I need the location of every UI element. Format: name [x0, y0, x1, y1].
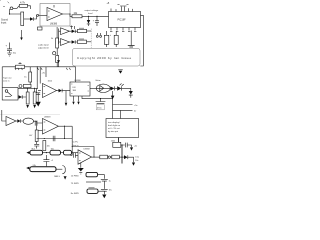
- ground G1: [128, 46, 135, 47]
- node C junction: [96, 16, 97, 17]
- wire R23 to cap column: [98, 175, 105, 179]
- buffer input bus: [59, 29, 61, 45]
- wire D1 to U1 input: [34, 15, 37, 19]
- wire R22 right: [56, 168, 62, 170]
- resistor R21: [64, 150, 72, 155]
- svg-text:8ohm: 8ohm: [96, 80, 101, 82]
- op-amp U4: [43, 119, 59, 135]
- svg-text:LM: LM: [73, 87, 76, 89]
- wire U4 out to U5 chain: [71, 126, 73, 146]
- label R8: [79, 27, 84, 29]
- svg-text:Copyright 2000 by Ian Gwee: Copyright 2000 by Ian Gwee: [77, 56, 132, 60]
- diode D5: [19, 95, 23, 99]
- svg-text:LM386: LM386: [75, 80, 82, 82]
- svg-text:16v: 16v: [109, 190, 112, 192]
- wire R8 to bus: [87, 30, 92, 32]
- copyright box: [73, 49, 141, 67]
- pin stub U2 top pin 14: [111, 9, 116, 12]
- microphone MIC1: [4, 2, 13, 10]
- wire U2 right side down: [140, 15, 143, 66]
- jack J1 box: [2, 88, 18, 101]
- resistor R17 (vertical): [35, 130, 38, 142]
- wires into control box: [113, 91, 121, 119]
- crystal X1: [120, 6, 127, 12]
- ground symbol above rail: [57, 60, 60, 63]
- speaker SP1: [96, 84, 110, 92]
- terminal T1: [108, 156, 110, 158]
- svg-text:adjustment: adjustment: [38, 46, 49, 49]
- resistor R3: [72, 15, 82, 18]
- diode D11: [17, 119, 20, 122]
- svg-text:Tape out: Tape out: [3, 76, 12, 79]
- LED D8: [117, 86, 121, 90]
- LED arrows: [120, 84, 124, 86]
- divider line: [0, 114, 60, 116]
- svg-text:audio input: audio input: [38, 44, 49, 47]
- amplifier U3 box: [70, 82, 90, 96]
- wire stub bottom-left amp: [2, 110, 6, 121]
- resistor R14 (vertical): [33, 92, 36, 104]
- capacitor C3 (polarized): [95, 16, 99, 26]
- IC U2 (PIC): [109, 12, 141, 28]
- svg-text:level: level: [88, 13, 93, 15]
- main low wire: [37, 138, 73, 140]
- control text box: [106, 119, 139, 138]
- resistor R7 (vertical): [56, 56, 59, 63]
- dashed bus x91: [90, 29, 92, 49]
- op-amp U6: [6, 117, 16, 126]
- svg-text:LM386: LM386: [50, 24, 58, 26]
- svg-text:back light on: back light on: [108, 124, 121, 127]
- svg-text:4.7k: 4.7k: [20, 0, 26, 4]
- power rail: [2, 66, 75, 68]
- svg-text:16v: 16v: [135, 160, 138, 162]
- wire U4 output: [59, 125, 73, 127]
- capacitor C9: [53, 136, 55, 141]
- svg-text:to PC: to PC: [73, 141, 79, 144]
- capacitor C14 electrolytic: [96, 99, 106, 104]
- input terminal of U1: [37, 14, 39, 16]
- capacitor C8: [35, 121, 42, 126]
- arrow left A4: [26, 167, 29, 170]
- jack J1 symbol: [5, 90, 8, 93]
- node A junction: [9, 13, 10, 14]
- wire R9 to bus: [87, 41, 92, 43]
- wire row B: [86, 181, 101, 183]
- svg-text:PIC16F: PIC16F: [118, 19, 127, 22]
- diode D9 (down): [129, 91, 133, 95]
- wire U4 input lower: [38, 130, 43, 132]
- bracket pan: [62, 166, 65, 174]
- resistor R9: [78, 40, 87, 43]
- resistor R11 (vertical): [29, 72, 32, 82]
- pin stub U2 top right: [129, 8, 133, 11]
- wire rail corner into U3: [75, 67, 77, 82]
- wire U1 output to R3: [63, 14, 73, 16]
- resistor R13 (vertical): [26, 92, 29, 104]
- lamp L1: [23, 118, 33, 124]
- diode D6: [59, 89, 62, 93]
- pin marks U1: [48, 5, 54, 17]
- wire terminal to U1: [39, 14, 47, 16]
- ground mark below copyright box: [119, 71, 123, 74]
- diode D7: [111, 87, 115, 91]
- wire R19 to R20: [43, 152, 51, 154]
- label R9: [79, 38, 84, 40]
- pin stubs U3 bottom: [74, 96, 79, 102]
- dashed enclosure around U1: [40, 4, 70, 27]
- svg-text:PAN L: PAN L: [54, 175, 61, 178]
- wire R1 to node A: [28, 6, 31, 9]
- wire down-chain from U1: [56, 27, 58, 38]
- resistor R5 (vertical under U2): [114, 35, 118, 44]
- arrow down A5: [64, 176, 67, 179]
- wire bias drop to U4a: [40, 67, 46, 84]
- resistor R4 (vertical under U2): [104, 35, 109, 44]
- wire mic to R1: [13, 6, 19, 9]
- diode D10: [124, 155, 128, 159]
- buffer gate U1c: [61, 39, 70, 46]
- capacitor C5: [37, 89, 41, 96]
- wire R3 to U2: [82, 15, 109, 17]
- svg-text:+5v: +5v: [134, 145, 137, 147]
- ground G2: [7, 53, 12, 56]
- capacitor C10: [43, 155, 49, 166]
- diode D3: [72, 30, 75, 34]
- resistor R19: [30, 150, 43, 155]
- resistor R22 (long): [30, 167, 56, 172]
- svg-text:1u: 1u: [109, 180, 111, 182]
- arrow down left-mid: [21, 30, 23, 38]
- svg-text:Line in: Line in: [3, 80, 10, 82]
- wire below control box: [119, 138, 123, 164]
- wire U3 out to speaker: [90, 87, 96, 89]
- arrow left A3: [26, 151, 29, 154]
- feedback wire U5: [72, 147, 94, 158]
- svg-text:10k: 10k: [47, 145, 50, 147]
- svg-text:output voltage: output voltage: [85, 9, 100, 12]
- wire R24 to cap column: [98, 190, 104, 192]
- pin stubs U2 bottom: [111, 28, 135, 31]
- wire +9V drop: [10, 9, 22, 14]
- diode D4: [72, 40, 75, 44]
- op-amp U4a: [43, 84, 57, 98]
- wire R20 to R21: [61, 152, 64, 154]
- resistor R8: [78, 29, 87, 32]
- cap C2 marks at U1 output corner: [70, 26, 75, 30]
- svg-text:8u FWD: 8u FWD: [71, 193, 79, 195]
- op-amp U1: [47, 8, 63, 21]
- resistor R12: [24, 84, 32, 87]
- wire R16 to D10: [119, 156, 124, 158]
- arrow down A1: [130, 147, 133, 150]
- wire pair to +5: [113, 105, 133, 111]
- wire output branch down: [64, 126, 66, 138]
- ground G4: [80, 163, 82, 168]
- wire T1 to R16: [108, 156, 112, 158]
- oscillator Y1 parts: [96, 35, 98, 37]
- svg-text:Input: Input: [1, 22, 7, 25]
- svg-text:at 0 - 5V set: at 0 - 5V set: [108, 127, 120, 130]
- svg-text:LM358: LM358: [44, 117, 51, 119]
- label R10: [19, 62, 22, 63]
- resistor R15 drop with arrow: [0, 0, 1, 1]
- zener D2: [88, 16, 90, 20]
- trimmer VR2: [19, 85, 22, 88]
- crystal marks: [118, 4, 129, 6]
- trimmer VR1: [53, 52, 56, 55]
- pin labels U2 bottom: [110, 31, 136, 33]
- label C14 value box: [96, 105, 104, 110]
- wire node row: [18, 87, 38, 89]
- wire rail to lower node: [36, 67, 38, 89]
- resistor R25: [113, 142, 121, 147]
- junction at U1 box edge: [69, 13, 70, 14]
- resistor R23: [86, 172, 98, 176]
- svg-text:1k FWD: 1k FWD: [71, 176, 79, 178]
- resistor R2 (vertical): [21, 12, 24, 26]
- resistor R10 in rail: [16, 65, 25, 68]
- diode D1: [30, 17, 33, 20]
- ground arrow G5: [102, 195, 106, 199]
- capacitor C12: [101, 179, 108, 189]
- capacitor C13: [101, 189, 108, 194]
- wire U3 bottom return: [82, 96, 113, 99]
- left rail drop: [1, 67, 3, 88]
- resistor R1: [20, 4, 28, 7]
- ground G3: [37, 96, 39, 102]
- wire R2 to D1: [24, 18, 30, 20]
- resistor R18 (vertical): [43, 141, 46, 151]
- wire U5 output: [92, 156, 100, 158]
- op-amp U5: [78, 150, 92, 164]
- resistor R24: [87, 189, 98, 193]
- svg-text:75 FWD: 75 FWD: [71, 183, 79, 185]
- svg-text:turn display /: turn display /: [108, 121, 121, 124]
- node B junction: [88, 16, 89, 17]
- wire ground drop right of U2: [130, 31, 132, 46]
- svg-text:0.1u: 0.1u: [135, 157, 139, 159]
- capacitor C11: [70, 153, 78, 158]
- buffer gate U1b: [61, 28, 70, 35]
- resistor R16: [112, 155, 120, 159]
- wire lamp to R17: [21, 121, 37, 130]
- arrow down near LED: [111, 96, 115, 100]
- resistor R16a: [100, 155, 108, 159]
- rail tick marks: [15, 68, 71, 70]
- resistor R6 (vertical): [56, 38, 59, 48]
- svg-text:470u: 470u: [97, 108, 101, 110]
- resistor R20: [50, 150, 61, 155]
- capacitor C6: [121, 143, 132, 148]
- svg-text:4k7: 4k7: [29, 135, 32, 137]
- capacitor C1 below U1 box: [38, 27, 43, 30]
- wire R21 to U5: [72, 152, 79, 154]
- arrow down A2: [132, 163, 135, 166]
- svg-text:LM358: LM358: [84, 148, 91, 150]
- capacitor C7: [34, 142, 39, 149]
- svg-text:by trim pot: by trim pot: [108, 130, 118, 133]
